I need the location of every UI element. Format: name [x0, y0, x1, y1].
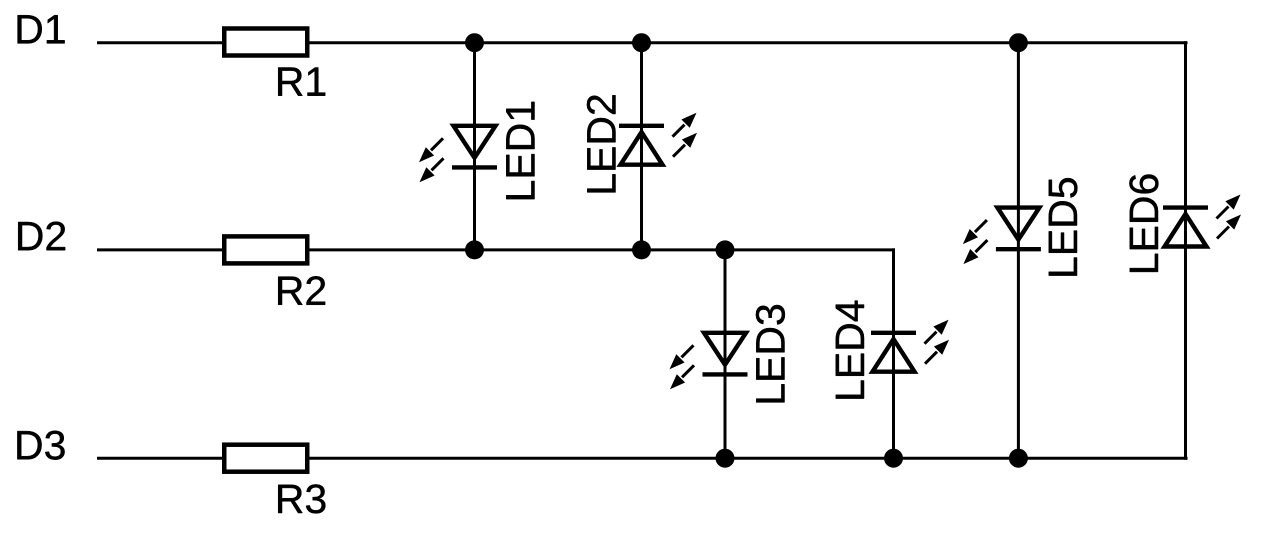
resistor R2	[224, 236, 307, 263]
wire LED3 column	[724, 250, 727, 458]
LED LED3	[670, 333, 748, 390]
wire LED6 column	[1184, 41, 1187, 460]
wire LED2 column	[640, 43, 643, 250]
label R3	[278, 484, 325, 513]
junction D3-LED3	[716, 449, 735, 468]
junction D3-LED5	[1009, 449, 1028, 468]
node D3	[17, 431, 64, 460]
label LED2	[587, 95, 616, 192]
LED LED1	[419, 126, 497, 183]
junction D1-LED1	[465, 33, 484, 52]
wire LED1 column	[473, 43, 476, 250]
junction D2-LED3	[716, 240, 735, 259]
LED LED4	[871, 320, 949, 372]
junction D1-LED5	[1009, 33, 1028, 52]
wire D2 rail	[97, 248, 895, 251]
resistor R3	[224, 445, 307, 472]
label LED5	[1049, 178, 1078, 276]
junction D2-LED2	[632, 240, 651, 259]
node D2	[18, 222, 65, 251]
junction D1-LED2	[632, 33, 651, 52]
node D1	[18, 15, 65, 43]
label LED6	[1129, 175, 1158, 272]
LED LED6	[1163, 195, 1241, 247]
resistor R1	[224, 29, 307, 56]
junction D3-LED4	[884, 449, 903, 468]
wire D1 rail	[97, 41, 1188, 44]
junction D2-LED1	[465, 240, 484, 259]
wire LED5 column	[1017, 43, 1020, 459]
LED LED2	[619, 113, 697, 165]
label LED3	[756, 305, 785, 402]
label R1	[278, 68, 325, 96]
wire D3 rail	[97, 457, 1188, 460]
LED LED5	[963, 208, 1041, 265]
label R2	[278, 276, 325, 305]
wire LED4 column	[892, 248, 895, 458]
label LED4	[836, 301, 864, 399]
label LED1	[506, 102, 534, 199]
